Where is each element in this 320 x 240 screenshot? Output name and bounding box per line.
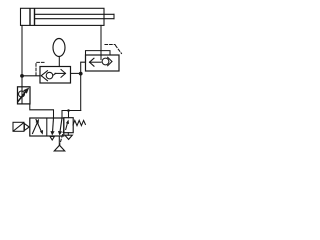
flow control valve FC1 body — [40, 67, 71, 84]
node A junction dot — [20, 74, 24, 78]
node B junction dot — [79, 72, 83, 76]
piston plate 2 — [34, 9, 36, 25]
solenoid coil — [13, 122, 24, 131]
wire: junction A to FC1 left port — [22, 75, 40, 77]
FC2 check valve ball — [102, 58, 109, 65]
left position crossed arrow 2 — [36, 120, 43, 135]
throttle valve TV1 body — [18, 87, 31, 104]
wire: throttle box bottom to valve port A — [30, 104, 54, 118]
right position arrow B — [58, 118, 62, 136]
FC1 check valve seat — [41, 71, 47, 81]
RV pilot dashed — [60, 130, 64, 145]
wire: cylinder right port down to FC2 pilot — [100, 25, 102, 59]
compressed air supply triangle — [54, 145, 64, 151]
RV spring — [73, 120, 85, 125]
valve position divider — [46, 118, 48, 136]
oval stem — [58, 57, 60, 67]
wire: FC2 top link — [86, 51, 111, 63]
wire: junction B up to FC2 left port — [81, 62, 86, 73]
left position crossed arrow 1 — [33, 119, 40, 134]
wire: down-run to valve port B — [62, 111, 81, 119]
relief valve RV body — [64, 118, 73, 133]
throttle TV1 circle — [19, 91, 25, 97]
RV exhaust triangle — [65, 135, 72, 139]
right position arrow A — [50, 118, 54, 136]
RV exhaust stem — [67, 133, 69, 136]
solenoid actuator triangle — [24, 124, 29, 131]
supply stem — [58, 136, 60, 145]
FC1 flow arrow — [53, 70, 66, 78]
valve exhaust triangle — [50, 136, 54, 140]
cylinder barrel — [21, 8, 105, 25]
FC1 check valve ball — [46, 72, 53, 79]
FC2 pilot dashed line — [105, 45, 122, 54]
wire: FC1 right port to junction B — [71, 72, 81, 74]
wire: branch to relief valve top — [68, 111, 70, 118]
FC2 flow arrow — [90, 58, 102, 66]
piston plate 1 — [29, 9, 31, 25]
directional valve body — [30, 118, 64, 136]
accumulator gauge oval — [53, 39, 65, 57]
node C junction dot — [67, 109, 70, 112]
FC2 check valve seat — [108, 57, 112, 66]
flow control valve FC2 body — [86, 55, 120, 71]
piston rod — [35, 14, 115, 18]
FC1 pilot dashed line — [36, 62, 44, 75]
RV internal arrow — [66, 120, 69, 130]
throttle TV1 flow line — [21, 87, 23, 104]
wire: junction B down — [80, 73, 82, 110]
throttle TV1 adjustment arrow — [18, 88, 29, 102]
wire: cylinder left port down — [21, 25, 23, 86]
